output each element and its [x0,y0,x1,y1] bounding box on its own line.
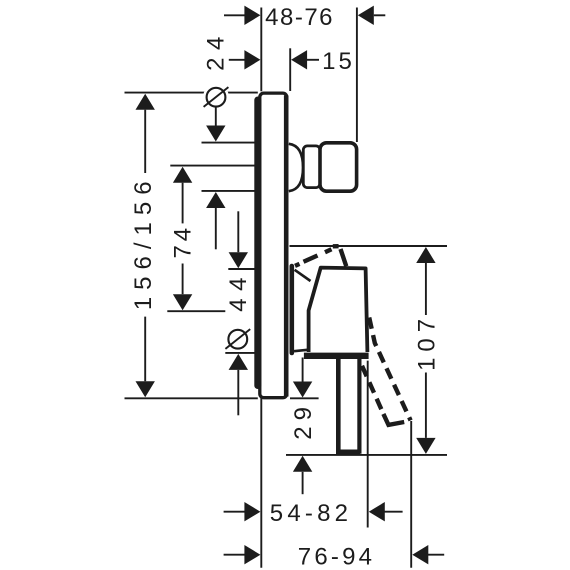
svg-text:74: 74 [170,224,197,258]
svg-text:44: 44 [225,270,252,312]
svg-text:48-76: 48-76 [265,4,334,31]
svg-text:107: 107 [414,313,441,371]
svg-text:156/156: 156/156 [130,174,157,310]
svg-text:76-94: 76-94 [298,544,375,570]
svg-text:15: 15 [322,48,355,75]
svg-text:29: 29 [290,401,317,440]
svg-text:54-82: 54-82 [270,500,352,527]
svg-text:24: 24 [203,29,230,71]
